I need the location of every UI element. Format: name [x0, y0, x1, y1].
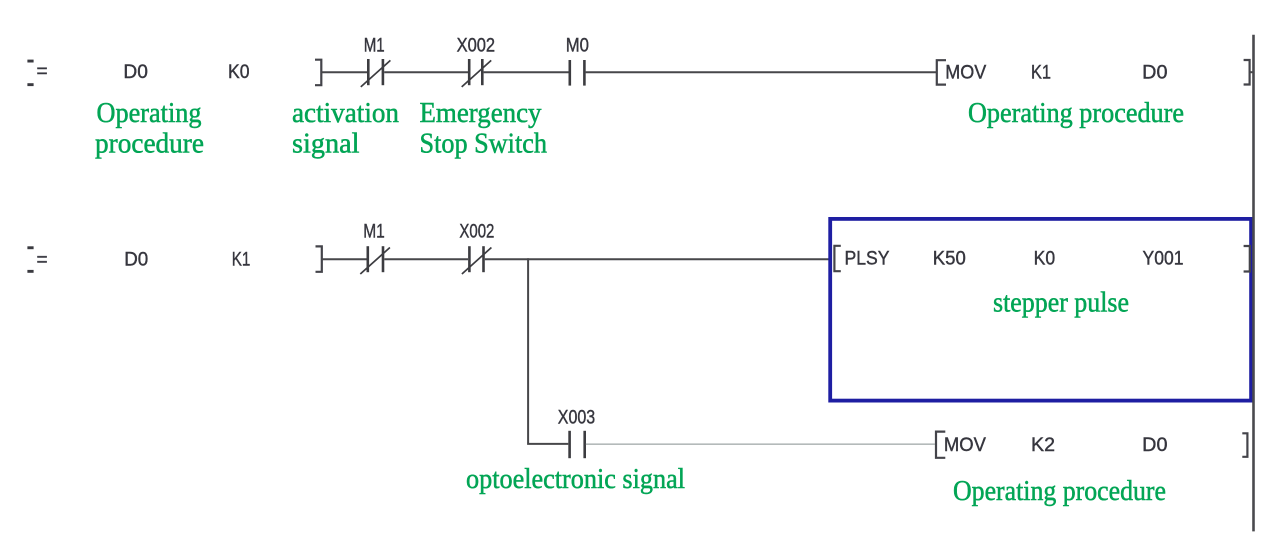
right bracket of PLSY	[1244, 246, 1250, 272]
svg-text:D0: D0	[123, 62, 147, 83]
contact M1 (NC) rung 2	[360, 246, 390, 274]
svg-text:=: =	[37, 62, 48, 83]
svg-text:K2: K2	[1031, 435, 1055, 456]
svg-text:X002: X002	[457, 36, 496, 57]
contact X003 (NO) branch	[570, 431, 585, 458]
highlight box (blue) around PLSY	[830, 219, 1251, 401]
svg-text:MOV: MOV	[944, 435, 986, 456]
comparison instruction fragment [= D0 K1 ] rung 2 : left bracket serifs	[27, 246, 33, 272]
MOV instruction branch : left bracket	[936, 432, 945, 458]
right power rail	[1252, 35, 1255, 532]
svg-text:K50: K50	[933, 249, 966, 270]
svg-text:Operating procedure: Operating procedure	[968, 97, 1184, 129]
svg-text:K1: K1	[1031, 63, 1051, 84]
svg-text:M0: M0	[566, 36, 589, 57]
right bracket of MOV rung 1	[1244, 60, 1250, 85]
right bracket of MOV branch	[1242, 433, 1247, 457]
wire branch horizontal seg 1	[527, 443, 568, 445]
contact X002 (NC) rung 2	[462, 246, 492, 274]
svg-text:Y001: Y001	[1143, 249, 1184, 270]
svg-text:K1: K1	[232, 249, 251, 270]
svg-text:stepper pulse: stepper pulse	[993, 287, 1129, 319]
wire rung 1 seg 4	[586, 71, 937, 73]
svg-text:procedure: procedure	[95, 127, 204, 159]
svg-text:K0: K0	[1034, 249, 1056, 270]
svg-text:D0: D0	[1142, 63, 1167, 84]
contact X002 (NC) rung 1	[462, 59, 492, 87]
svg-text:MOV: MOV	[945, 63, 986, 84]
svg-text:Stop Switch: Stop Switch	[420, 127, 548, 159]
wire rung 1 seg 1	[322, 71, 368, 73]
svg-text:optoelectronic signal: optoelectronic signal	[466, 463, 685, 495]
svg-text:X003: X003	[558, 408, 595, 429]
svg-text:K0: K0	[228, 62, 250, 83]
wire rung 2 seg 2	[384, 258, 468, 260]
svg-text:PLSY: PLSY	[845, 249, 890, 270]
svg-text:Operating: Operating	[97, 97, 202, 129]
svg-text:D0: D0	[1142, 435, 1167, 456]
svg-text:=: =	[37, 250, 48, 271]
svg-text:signal: signal	[292, 127, 360, 159]
svg-text:D0: D0	[124, 249, 148, 270]
svg-text:M1: M1	[363, 222, 385, 243]
contact M1 (NC) rung 1	[361, 59, 391, 87]
wire branch horizontal seg 2 (faint)	[586, 443, 935, 445]
svg-text:Emergency: Emergency	[420, 97, 542, 129]
right bracket of comparison, rung 2	[316, 246, 322, 271]
svg-text:X002: X002	[459, 222, 494, 243]
svg-text:Operating procedure: Operating procedure	[953, 475, 1166, 507]
MOV instruction rung 1 : left bracket	[937, 60, 946, 84]
junction node: branch drop wire	[527, 258, 529, 443]
wire rung 1 seg 3	[484, 71, 569, 73]
PLSY instruction : left bracket	[834, 246, 840, 271]
wire stub to right rail rung 1	[1250, 71, 1254, 73]
wire rung 2 seg 3 to PLSY box	[485, 258, 829, 260]
wire rung 1 seg 2	[384, 71, 468, 73]
svg-text:M1: M1	[364, 36, 385, 57]
right bracket of comparison, rung 1	[315, 60, 321, 85]
svg-text:activation: activation	[292, 97, 399, 129]
comparison instruction fragment [= D0 K0 ] rung 1 : left bracket serifs	[27, 60, 33, 87]
contact M0 (NO) rung 1	[570, 60, 585, 86]
wire rung 2 seg 1	[322, 258, 367, 260]
